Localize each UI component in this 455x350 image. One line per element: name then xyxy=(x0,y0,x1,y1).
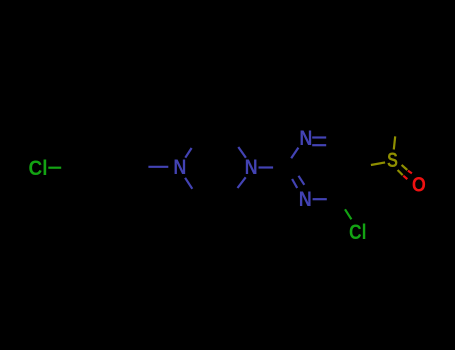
bond CH2-N lower (blue half) xyxy=(238,177,246,188)
bond N-C2 pyrimidine (blue half) xyxy=(259,166,274,168)
bond C4-Cl (green half) xyxy=(345,209,351,219)
svg-text:Cl: Cl xyxy=(29,157,48,180)
double bond N1=C6 main line (blue half) xyxy=(312,136,326,138)
svg-text:N: N xyxy=(299,188,312,211)
svg-text:N: N xyxy=(299,127,312,150)
double bond S=O line1 sulfur half xyxy=(402,165,408,170)
bond C2-N1 (blue half) xyxy=(291,148,298,159)
svg-text:S: S xyxy=(387,149,398,172)
bond N-CH2 lower (blue half) xyxy=(185,178,192,189)
double bond S=O line2 oxygen half xyxy=(403,176,407,179)
bond phenyl-N (blue half) xyxy=(148,166,168,168)
double bond S=O line1 oxygen half xyxy=(408,171,412,174)
svg-text:O: O xyxy=(412,174,426,197)
bond CH2-N upper (blue half) xyxy=(238,147,246,158)
double bond N1=C6 inner line (blue half) xyxy=(312,144,326,146)
bond C5-S (olive half) xyxy=(371,162,385,165)
double bond C2=N3 main line (blue half) xyxy=(292,179,297,188)
double bond S=O line2 sulfur half xyxy=(398,170,403,175)
bond S-CH3 (olive half) xyxy=(394,136,395,149)
svg-text:N: N xyxy=(173,156,186,179)
double bond C2=N3 inner line (blue half) xyxy=(299,176,305,185)
bond N3-C4 (blue half) xyxy=(313,198,327,200)
svg-text:Cl: Cl xyxy=(349,221,367,244)
bond N-CH2 upper (blue half) xyxy=(185,148,191,158)
svg-text:N: N xyxy=(245,156,258,179)
bond Cl-phenyl (green half) xyxy=(48,167,61,169)
